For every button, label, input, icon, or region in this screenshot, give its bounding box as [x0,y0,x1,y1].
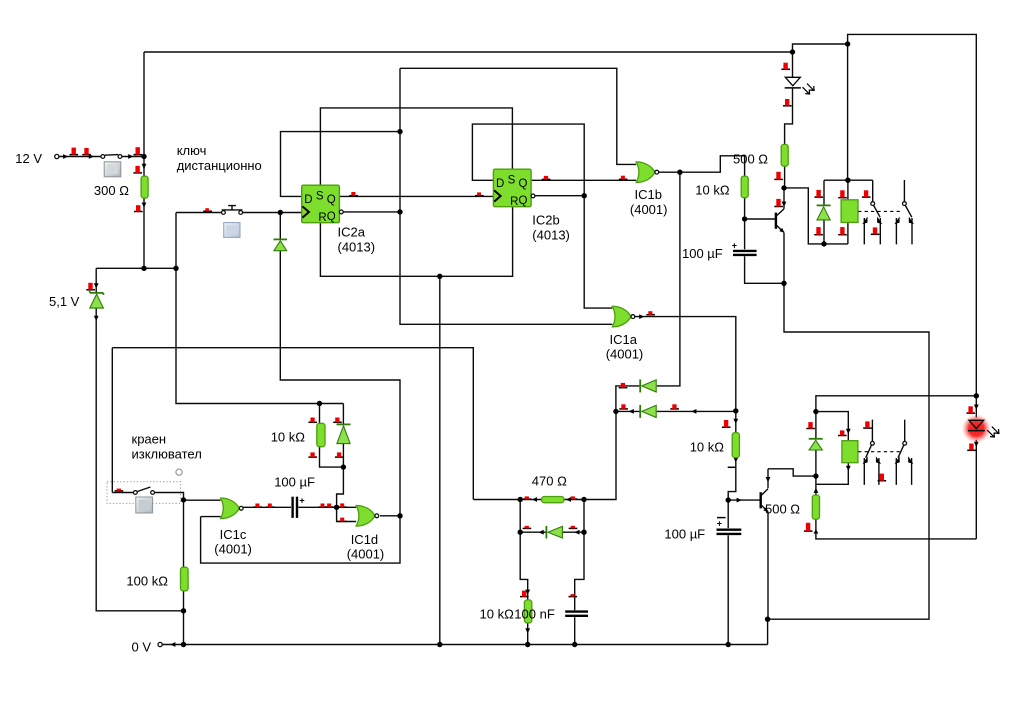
voltage bar [134,147,143,154]
relay RL1 dashed link [858,210,903,212]
voltage bar [325,504,334,508]
wire push button diode to IC1d output [280,213,400,516]
svg-text:500 Ω: 500 Ω [765,502,800,517]
junction node 8 [582,193,587,198]
svg-text:100 nF: 100 nF [514,607,555,622]
svg-text:300 Ω: 300 Ω [94,183,129,198]
svg-text:100 µF: 100 µF [274,475,315,490]
wire 500 ohm 2 to red LED bottom row [816,476,976,539]
junction node 22 [726,497,731,502]
svg-text:(4013): (4013) [532,227,570,242]
wire LED1 and 500 ohm branch [785,52,793,188]
resistor R5 10k [732,433,739,458]
svg-text:10 kΩ: 10 kΩ [695,182,730,197]
voltage bar [319,504,328,508]
wire capacitor C1 leads [745,219,784,283]
svg-text:изклювател: изклювател [132,446,202,461]
switch SW2 (limit switch) [133,487,154,494]
LED1 [785,77,814,94]
junction node 31 [518,530,523,535]
junction node 17 [974,393,979,398]
wire Q2 collector lead [767,469,769,488]
current arrow [94,283,99,288]
voltage bar [338,518,347,522]
resistor R4 500 [812,495,819,519]
wire key supply drop to 10k pullup [176,213,343,404]
wire 100nF to 0V [575,532,584,644]
junction node 32 [581,530,586,535]
selection box around SW2 [107,482,181,504]
voltage bar [335,452,344,457]
junction node 11 [845,41,850,46]
wire limit switch top row [112,348,473,500]
diode D5 [337,424,351,443]
svg-text:D: D [304,194,312,206]
junction node 18 [813,409,818,414]
voltage bar [82,148,91,155]
wire IC2a Q to IC2b CLK [339,195,493,197]
wire relay1 coil leads [847,180,849,244]
junction node 19 [813,473,818,478]
wire Q2 base lead [728,499,760,501]
wire IC2a D feedback [281,132,401,197]
voltage bar [475,192,484,195]
wire Qbar bus vertical to IC1a input [400,68,612,324]
current arrow [814,529,819,534]
svg-text:100 kΩ: 100 kΩ [126,574,168,589]
svg-text:0 V: 0 V [132,639,152,654]
wire 12V supply to LED branch (top rail) [144,51,793,53]
resistor R2 500 [781,144,788,166]
switch SW1 widget [104,162,121,177]
wire Q2 emitter lead [767,512,769,620]
voltage bar [804,523,813,531]
wire 0V rail [162,644,768,646]
wire IC2b Q to IC1b lower input [531,179,636,181]
resistor R7 100k [181,567,189,591]
junction node 30 [581,497,586,502]
junction node 29 [518,497,523,502]
voltage bar [670,404,679,409]
voltage bar [783,99,792,106]
current arrow [737,498,742,503]
voltage tick C3 [717,517,726,519]
wire IC1a output to 10k [635,317,736,411]
junction node 21 [733,408,738,413]
junction node 10 [790,49,795,54]
svg-text:Q: Q [519,178,528,190]
junction node 34 [181,642,186,647]
relay RL1 contact circles [871,202,875,206]
wire node row y268 [96,267,176,269]
svg-text:100 µF: 100 µF [682,246,723,261]
transistor Q2 [761,489,769,512]
voltage bar [203,208,212,211]
voltage bar [569,526,578,529]
voltage bar [266,504,275,508]
zener diode ZD1 [89,291,104,308]
junction node 16 [821,241,826,246]
current arrow [691,409,696,414]
current arrow [539,530,544,535]
wire IC2b Qbar to feedback node [535,195,584,197]
svg-text:IC1c: IC1c [220,527,247,542]
wire diode D4 row [616,410,736,412]
wire 100k pulldown leads [183,500,185,645]
capacitor C4 100nF [565,612,588,616]
resistor R9 10k [524,600,531,623]
wire relay1 contact2 stub [903,180,905,202]
wire red LED leads [975,396,977,539]
current arrow [128,154,133,159]
wire top rail to red LED branch [848,34,977,395]
current arrow [974,405,979,410]
junction node 27 [334,505,339,510]
current arrow [566,497,571,502]
relay RL2 contact arrowheads [863,456,868,464]
wire zener bottom to 0V row [96,308,183,611]
current arrow [846,429,851,434]
wire 470 ohm row [473,411,616,499]
wire relay1 top row / contact1 common [824,180,873,201]
push button PB1 widget [224,223,240,238]
svg-text:R: R [510,196,518,208]
wire IC2a Qbar to node [343,211,400,213]
voltage bar [70,148,79,155]
wire capacitor C3 leads [727,500,729,644]
wire IC1c lower input [201,516,221,518]
NOR gate IC1b (4001) [636,162,658,183]
LED2 red (lit) [962,414,999,443]
diode RL2 clamp diode [809,439,823,450]
voltage bar [967,444,976,451]
resistor R3 10k [741,176,748,198]
wire 300 ohm branch [143,52,145,268]
junction node 33 [181,608,186,613]
current arrow [142,164,147,169]
junction node 2 [141,266,146,271]
voltage bar [838,430,847,435]
junction node 36 [525,642,530,647]
NOR gate IC1c (4001) [221,498,244,519]
svg-text:100 µF: 100 µF [664,527,705,542]
current arrow [733,457,738,462]
junction node 6 [397,209,402,214]
svg-text:+: + [732,240,737,250]
wire 10k pullup leads [320,404,344,468]
current arrow [782,202,787,207]
junction node 4 [278,210,283,215]
current arrow [94,316,99,321]
wire relay2 coil bottom lead [816,463,848,485]
wire reset line to 0V [439,276,441,644]
junction node 20 [613,409,618,414]
current arrow [629,409,634,414]
diode D3 [640,379,656,392]
current arrow [525,590,530,595]
relay RL2 contact blades [866,445,904,458]
wire zener top lead [95,268,97,292]
junction node 13 [781,185,786,190]
svg-text:10 kΩ: 10 kΩ [271,430,306,445]
junction node 7 [437,274,442,279]
wire Q1 emitter lead [783,233,785,284]
svg-text:S: S [316,190,324,202]
transistor Q1 [776,209,784,233]
wire relay1 contact posts [864,218,912,244]
wire Q1 base lead [745,218,775,220]
voltage bar [619,383,628,388]
diode D2 [274,239,288,250]
current arrow [639,314,644,319]
pin 12V [55,154,59,158]
svg-text:Q: Q [519,195,528,207]
voltage bar [134,205,143,211]
svg-text:(4001): (4001) [214,542,252,557]
relay RL2 coil [842,441,858,463]
wire IC1d lower input [337,507,357,521]
svg-text:5,1 V: 5,1 V [49,294,80,309]
svg-text:(4001): (4001) [630,202,668,217]
voltage bar [646,311,655,315]
NOR gate IC1a (4001) [612,306,635,327]
diode RL1 clamp diode [817,205,831,220]
voltage bar [774,172,783,180]
wire IC1b output to 10k base resistor [659,156,745,176]
svg-text:Q: Q [327,211,336,223]
current arrow [846,466,851,471]
push button PB1 [222,206,243,215]
voltage bar [308,418,317,423]
wire IC1c upper input [184,499,221,501]
wire 10k to 0V [520,532,528,644]
voltage bar [619,176,628,180]
voltage bar [523,526,532,529]
voltage bar [619,404,628,409]
junction node 38 [726,642,731,647]
junction node 25 [341,464,346,469]
junction node 9 [677,170,682,175]
resistor R1 300 [141,176,148,198]
voltage bar [542,176,551,180]
wire 12V pin line [59,156,144,158]
voltage bar [863,421,872,428]
current arrow [142,203,147,208]
wire IC1d output feedback loop [201,516,400,563]
diode D6 [546,526,562,539]
current arrow [525,628,530,633]
wire Q1 collector to relay1 bottom [784,188,848,244]
voltage bar [115,489,124,491]
capacitor C3 100uF [717,518,742,534]
wire relay2 diode leads [815,412,817,477]
voltage bar [814,190,823,197]
voltage bar [838,227,847,235]
wire feedback node to IC1a upper input [584,196,612,308]
wire relay2 coil top lead [816,412,848,441]
current arrow [170,642,175,647]
svg-text:+: + [717,518,722,528]
relay RL2 contact circles [871,441,875,445]
junction node 37 [572,642,577,647]
voltage bar [338,503,347,507]
resistor R6 10k [317,423,325,446]
voltage bar [871,227,880,234]
svg-text:ключ: ключ [177,143,207,158]
current arrow [89,154,94,159]
junction node 28 [397,513,402,518]
voltage bar [253,504,262,508]
voltage bar [86,283,95,290]
voltage bar [722,420,731,427]
capacitor C2 100uF [293,495,305,518]
wire 10k to Q1 base node [744,198,746,219]
junction node 5 [397,129,402,134]
current arrow [733,419,738,424]
wire emitter bus Q1-Q2 [768,283,929,644]
current arrow [574,530,579,535]
voltage bar [569,496,578,499]
wire Qbar bus to IC1b upper input [400,68,636,164]
diode D4 [640,405,656,418]
svg-text:10 kΩ: 10 kΩ [480,607,515,622]
relay RL1 contact blades [874,205,912,217]
svg-text:10 kΩ: 10 kΩ [690,440,725,455]
wire diode D6 row [520,500,584,533]
voltage bar [133,166,142,173]
wire D5 bottom to IC1d input node [337,467,344,507]
current arrow [647,384,652,389]
svg-text:краен: краен [132,432,167,447]
switch SW1 (remote key) [101,155,122,159]
svg-text:дистанционно: дистанционно [177,158,262,173]
current arrow [766,477,771,482]
wire IC2a R to IC2b R and 0V [320,207,512,277]
current arrow [532,497,537,502]
voltage bar [774,199,783,207]
pin 0V [158,642,162,646]
junction node 12 [845,178,850,183]
svg-text:D: D [496,178,504,190]
wire limit switch leads [112,348,183,500]
svg-text:IC1b: IC1b [635,187,662,202]
voltage bar [862,190,871,197]
capacitor C1 100uF [732,240,757,255]
relay RL1 contact arrowheads [862,217,867,225]
wire diode D5 leads [342,404,344,468]
junction node 35 [437,642,442,647]
svg-text:IC2b: IC2b [532,213,559,228]
voltage bar [838,190,847,197]
junction node 14 [742,216,747,221]
voltage bar [349,192,358,196]
relay RL1 coil [841,200,858,223]
wire 10k to Q2 base [728,411,736,500]
NOR gate IC1d (4001) [356,506,378,527]
wire IC2a S to IC2b S [320,108,512,185]
svg-text:R: R [318,212,326,224]
wire Q1 collector lead [783,188,785,209]
voltage bar [520,591,529,597]
current arrow [814,488,819,493]
junction node 1 [141,154,146,159]
svg-text:(4001): (4001) [347,547,385,562]
wire IC1c output through C2 [243,506,337,508]
voltage bar [333,418,342,423]
svg-text:Q: Q [327,194,336,206]
svg-text:S: S [508,174,516,186]
wire relay2 supply row [816,396,976,412]
wire IC1d output [380,515,400,517]
switch SW2 widget [136,497,153,513]
wire Q2 collector to relay2 [768,469,816,476]
svg-text:IC1a: IC1a [610,332,638,347]
wire top-right link [793,44,848,52]
current arrow [974,442,979,447]
junction node 15 [781,281,786,286]
wire IC1d upper input [337,506,357,508]
relay RL2 dashed link [858,451,903,453]
svg-text:500 Ω: 500 Ω [733,152,768,167]
svg-text:(4001): (4001) [606,347,644,362]
svg-text:(4013): (4013) [338,239,376,254]
svg-text:+: + [299,495,304,505]
junction node 3 [173,266,178,271]
wire relay1 diode leads [823,180,825,244]
resistor R8 470 [542,497,564,503]
D flip-flop IC2b (4013) [493,169,534,208]
voltage bar [878,474,887,481]
svg-text:12 V: 12 V [15,151,42,166]
voltage bar [523,496,532,499]
wire relay2 contact posts [864,458,911,485]
wire supply drop to relay1 [847,44,849,180]
voltage bar [569,594,578,597]
current arrow [63,154,68,159]
svg-text:IC2a: IC2a [338,225,366,240]
voltage bar [806,422,815,428]
wire push button line to IC2a CLK [176,212,302,214]
junction node 23 [765,617,770,622]
svg-text:IC1d: IC1d [351,532,378,547]
wire relay2 contact stubs [872,420,904,442]
voltage bar [814,227,823,235]
voltage tick [728,466,737,468]
D flip-flop IC2a (4013) [302,185,343,224]
junction node 26 [181,497,186,502]
voltage bar [966,406,975,413]
svg-text:470 Ω: 470 Ω [532,474,567,489]
junction node 24 [317,401,322,406]
voltage bar [308,452,317,457]
wire IC1b output to diode D3 [616,172,680,411]
wire IC2b D feedback [472,124,584,196]
voltage bar [781,63,790,70]
